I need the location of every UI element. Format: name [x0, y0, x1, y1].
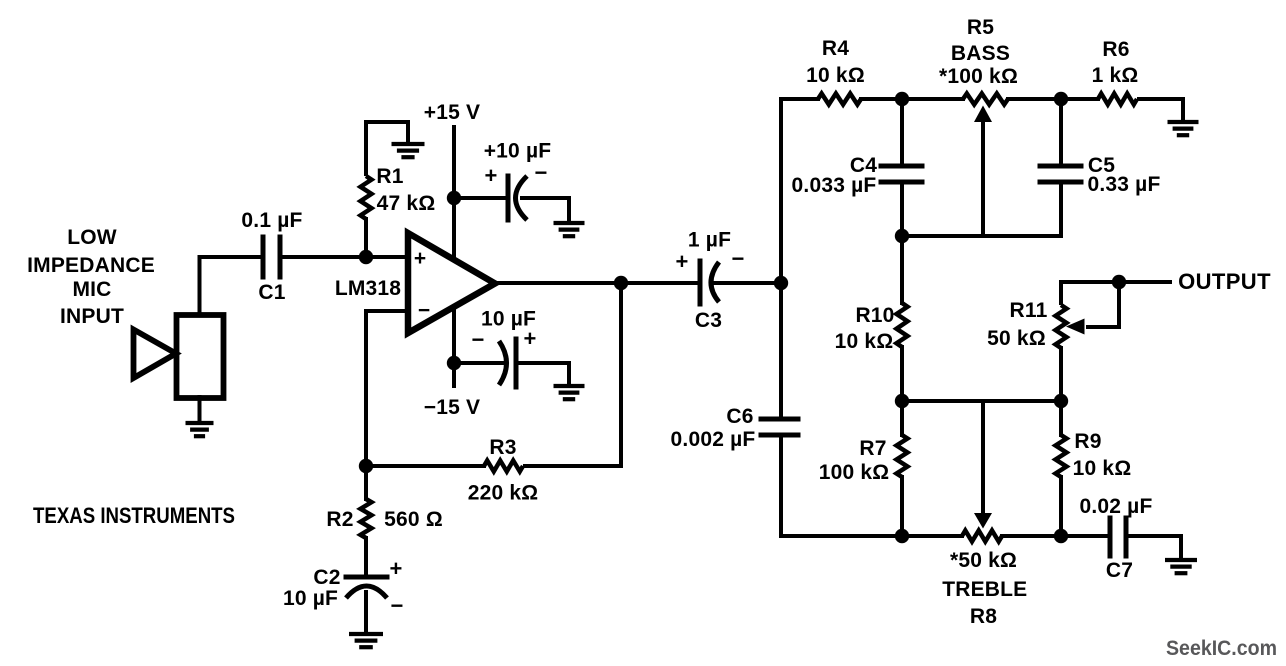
label -15V	[424, 396, 480, 419]
label C3	[695, 309, 722, 332]
label R4	[822, 37, 849, 60]
svg-text:1 µF: 1 µF	[688, 229, 731, 252]
wire node to C7	[1061, 534, 1110, 538]
node bass right junction	[1054, 92, 1068, 106]
svg-text:LOW: LOW	[67, 226, 117, 249]
wire treble to node	[1002, 534, 1061, 538]
svg-text:+: +	[675, 249, 688, 274]
svg-text:−: −	[534, 160, 547, 185]
svg-text:R8: R8	[970, 605, 997, 628]
label +10uF minus	[534, 160, 547, 185]
node tone input junction	[774, 276, 788, 290]
label 10uF value	[481, 308, 536, 331]
wire R5 wiper	[981, 122, 985, 236]
svg-text:R5: R5	[967, 16, 994, 39]
wire bass right to C5	[1059, 99, 1063, 166]
label C4	[850, 154, 877, 177]
label R5 BASS	[951, 42, 1010, 65]
wire mic to ground	[198, 397, 202, 421]
svg-text:+: +	[389, 556, 402, 581]
wire C1 to op-amp input	[282, 255, 407, 259]
svg-text:220 kΩ: 220 kΩ	[468, 482, 539, 505]
resistor R6	[1098, 94, 1137, 105]
label TEXAS INSTRUMENTS	[33, 503, 235, 528]
ground C2	[349, 634, 383, 647]
label input description	[27, 226, 155, 328]
wire node to R5	[902, 97, 963, 101]
label +10uF value	[484, 140, 552, 163]
label C3 plus	[675, 249, 688, 274]
label R11	[1010, 299, 1048, 322]
wire C7 to ground	[1126, 536, 1181, 558]
wire C5 to rail	[1059, 182, 1063, 236]
svg-text:C1: C1	[258, 281, 285, 304]
node treble right junction	[1054, 529, 1068, 543]
label R9 value	[1073, 457, 1132, 480]
svg-text:−: −	[390, 593, 403, 618]
wire R4 to node	[861, 97, 902, 101]
svg-text:IMPEDANCE: IMPEDANCE	[27, 254, 155, 277]
wire +10uF to ground	[520, 198, 569, 221]
svg-text:*50 kΩ: *50 kΩ	[950, 549, 1017, 572]
svg-text:47 kΩ: 47 kΩ	[377, 192, 436, 215]
label R11 value	[987, 327, 1046, 350]
label R2	[326, 508, 353, 531]
svg-text:R11: R11	[1010, 299, 1048, 322]
wire C2 to ground	[364, 592, 368, 632]
label +15V	[424, 101, 480, 124]
svg-text:100 kΩ: 100 kΩ	[819, 461, 890, 484]
potentiometer R11	[1056, 305, 1067, 348]
label C1 value	[241, 209, 302, 232]
svg-text:INPUT: INPUT	[60, 305, 124, 328]
svg-text:10 kΩ: 10 kΩ	[835, 330, 894, 353]
wire bass bottom rail	[902, 234, 1061, 238]
wire node to R2	[364, 466, 368, 499]
svg-text:R10: R10	[855, 304, 894, 327]
label R7 value	[819, 461, 890, 484]
svg-text:LM318: LM318	[335, 277, 401, 300]
resistor R3	[484, 461, 523, 472]
resistor R1	[361, 176, 372, 219]
wire R10 to node	[900, 347, 904, 401]
svg-text:R2: R2	[326, 508, 353, 531]
label OUTPUT	[1178, 269, 1271, 294]
label C6 value	[671, 428, 756, 451]
svg-text:−: −	[731, 246, 744, 271]
ground R1	[392, 144, 425, 157]
wire bottom rail left	[902, 534, 962, 538]
ground C7	[1165, 560, 1197, 573]
label R8	[970, 605, 997, 628]
svg-text:C7: C7	[1106, 559, 1133, 582]
svg-text:+: +	[484, 163, 497, 188]
svg-text:R3: R3	[489, 436, 516, 459]
node mid left junction	[895, 394, 909, 408]
wire node to R1	[364, 219, 368, 257]
wire node to R10	[900, 236, 904, 303]
label R5	[967, 16, 994, 39]
wire R6 to ground	[1137, 99, 1183, 120]
resistor R10	[897, 303, 908, 347]
wire C4 to node	[900, 182, 904, 236]
wire C6 to bottom rail	[781, 435, 902, 536]
wire C3 to tone node	[712, 281, 781, 285]
label LM318	[335, 277, 401, 300]
label R5 value	[939, 65, 1018, 88]
node +15V bypass junction	[447, 191, 461, 205]
capacitor bypass 10uF plates	[499, 339, 516, 387]
svg-text:R4: R4	[822, 37, 849, 60]
svg-text:C3: C3	[695, 309, 722, 332]
node mid right junction	[1054, 394, 1068, 408]
svg-text:C2: C2	[313, 566, 340, 589]
label R1	[376, 165, 403, 188]
arrow R8 wiper	[974, 513, 992, 529]
label C4 value	[792, 174, 877, 197]
label R2 value	[384, 508, 443, 531]
label R1 value	[377, 192, 436, 215]
wire +15V supply	[452, 127, 456, 262]
label R10 value	[835, 330, 894, 353]
label R10	[855, 304, 894, 327]
wire R11 to node	[1059, 348, 1063, 401]
wire output to C3	[621, 281, 700, 285]
resistor R9	[1056, 435, 1067, 477]
op-amp plus pin label	[414, 247, 426, 270]
ground mic	[186, 423, 214, 436]
svg-text:R7: R7	[859, 437, 886, 460]
label C1	[258, 281, 285, 304]
label R3	[489, 436, 516, 459]
label C7 value	[1079, 495, 1152, 518]
wire R5 to node	[1008, 97, 1061, 101]
capacitor C3 plates	[700, 261, 719, 304]
svg-text:50 kΩ: 50 kΩ	[987, 327, 1046, 350]
svg-text:560 Ω: 560 Ω	[384, 508, 443, 531]
arrow R11 wiper	[1066, 319, 1085, 335]
svg-text:OUTPUT: OUTPUT	[1178, 269, 1271, 294]
potentiometer R5 BASS	[963, 94, 1008, 105]
label watermark SeekIC.com	[1166, 637, 1277, 660]
svg-text:+: +	[523, 326, 536, 351]
svg-text:10 kΩ: 10 kΩ	[1073, 457, 1132, 480]
wire minus input	[366, 311, 408, 466]
label C3 minus	[731, 246, 744, 271]
label R6 value	[1092, 64, 1139, 87]
node output junction	[614, 276, 628, 290]
label C7	[1106, 559, 1133, 582]
svg-text:0.002 µF: 0.002 µF	[671, 428, 756, 451]
wire R3 to feedback node	[366, 464, 484, 468]
capacitor C7 plates	[1110, 518, 1126, 556]
svg-text:SeekIC.com: SeekIC.com	[1166, 637, 1277, 660]
svg-text:−: −	[471, 327, 484, 352]
wire top rail left	[781, 97, 818, 101]
svg-text:BASS: BASS	[951, 42, 1010, 65]
op-amp U1 LM318	[408, 233, 495, 333]
label R9	[1074, 430, 1101, 453]
capacitor C4 plates	[881, 166, 922, 182]
microphone MIC body	[177, 315, 224, 398]
svg-text:0.1 µF: 0.1 µF	[241, 209, 302, 232]
wire mid rail	[902, 399, 1061, 403]
capacitor C5 plates	[1040, 166, 1081, 182]
wire output stub	[1119, 280, 1170, 284]
svg-text:10 µF: 10 µF	[283, 587, 338, 610]
wire R1 to ground	[366, 122, 408, 176]
wire output to R3	[523, 283, 621, 466]
node bass left junction	[895, 92, 909, 106]
label R4 value	[806, 64, 865, 87]
svg-text:10 kΩ: 10 kΩ	[806, 64, 865, 87]
svg-text:0.033 µF: 0.033 µF	[792, 174, 877, 197]
wire tone input down to C6	[779, 283, 783, 419]
wire node to R6	[1061, 97, 1098, 101]
label 10uF plus	[523, 326, 536, 351]
svg-text:C6: C6	[726, 405, 753, 428]
label C6	[726, 405, 753, 428]
svg-text:*100 kΩ: *100 kΩ	[939, 65, 1018, 88]
wire 10uF to ground	[516, 363, 569, 384]
arrow R5 wiper	[974, 106, 992, 123]
label C5 value	[1087, 173, 1160, 196]
label C2	[313, 566, 340, 589]
potentiometer R8 TREBLE	[962, 531, 1002, 542]
capacitor C6 plates	[761, 419, 798, 435]
resistor R7	[897, 435, 908, 477]
svg-text:0.33 µF: 0.33 µF	[1087, 173, 1160, 196]
node output tap junction	[1112, 275, 1126, 289]
wire node to R7	[900, 401, 904, 435]
wire R7 to bottom rail	[900, 477, 904, 536]
wire R9 to bottom rail	[1059, 477, 1063, 536]
svg-text:−: −	[418, 299, 430, 322]
wire tone input up	[779, 99, 783, 283]
node -15V bypass junction	[447, 356, 461, 370]
label R8 TREBLE	[942, 578, 1027, 601]
label C5	[1088, 154, 1115, 177]
svg-text:R9: R9	[1074, 430, 1101, 453]
svg-text:+: +	[414, 247, 426, 270]
wire +15V to C8	[454, 196, 508, 200]
label C2 value	[283, 587, 338, 610]
wire op-amp output	[495, 281, 621, 285]
svg-text:0.02 µF: 0.02 µF	[1079, 495, 1152, 518]
ground +10uF	[554, 223, 585, 236]
label R6	[1102, 38, 1129, 61]
label C2 minus	[390, 593, 403, 618]
label C2 plus	[389, 556, 402, 581]
wire R8 wiper	[981, 401, 985, 512]
wire R2 to C2	[364, 538, 368, 577]
wire R11 top	[1061, 282, 1119, 305]
node bass bottom junction	[895, 229, 909, 243]
capacitor C1 plates	[263, 237, 280, 277]
ground R6	[1168, 122, 1199, 135]
svg-text:R1: R1	[376, 165, 403, 188]
wire R11 wiper	[1086, 282, 1119, 327]
wire mic to input node	[200, 257, 262, 315]
label +10uF plus	[484, 163, 497, 188]
wire node to R9	[1059, 401, 1063, 435]
capacitor C2 plates	[346, 577, 387, 598]
resistor R2	[361, 499, 372, 538]
label C3 value	[688, 229, 731, 252]
svg-text:+15 V: +15 V	[424, 101, 480, 124]
svg-text:TEXAS INSTRUMENTS: TEXAS INSTRUMENTS	[33, 503, 235, 528]
svg-text:1 kΩ: 1 kΩ	[1092, 64, 1139, 87]
label 10uF minus	[471, 327, 484, 352]
wire bass left to C4	[900, 99, 904, 166]
node plus-input junction	[359, 250, 373, 264]
ground 10uF	[554, 386, 585, 399]
svg-text:R6: R6	[1102, 38, 1129, 61]
microphone cone	[134, 330, 177, 379]
svg-text:MIC: MIC	[72, 278, 111, 301]
svg-text:TREBLE: TREBLE	[942, 578, 1027, 601]
capacitor bypass +10uF plates	[508, 176, 527, 220]
op-amp minus pin label	[418, 299, 430, 322]
label R3 value	[468, 482, 539, 505]
svg-text:−15 V: −15 V	[424, 396, 480, 419]
wire -15V to cap	[454, 361, 505, 365]
node feedback junction	[359, 459, 373, 473]
label R8 value	[950, 549, 1017, 572]
wire -15V supply	[452, 304, 456, 386]
resistor R4	[818, 94, 861, 105]
node treble left junction	[895, 529, 909, 543]
label R7	[859, 437, 886, 460]
